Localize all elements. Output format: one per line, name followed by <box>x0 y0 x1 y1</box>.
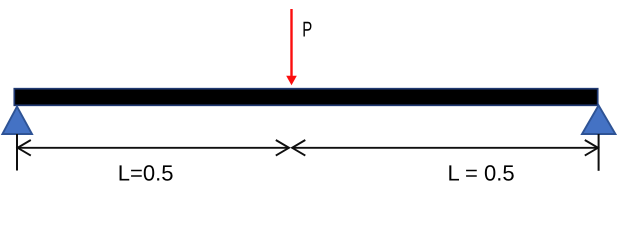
right extension line <box>598 134 600 171</box>
left dimension line (double open arrow) <box>17 140 289 156</box>
right dimension line (double open arrow) <box>292 140 599 156</box>
left support (pin triangle) <box>2 107 32 134</box>
right support (pin triangle) <box>582 105 615 134</box>
load arrow P (red, pointing down onto beam midspan) <box>286 9 297 85</box>
beam (black bar with navy outline) <box>14 89 597 106</box>
svg-text:P: P <box>302 17 312 41</box>
left extension line <box>16 134 18 171</box>
svg-text:L = 0.5: L = 0.5 <box>448 161 515 186</box>
svg-text:L=0.5: L=0.5 <box>118 161 174 186</box>
